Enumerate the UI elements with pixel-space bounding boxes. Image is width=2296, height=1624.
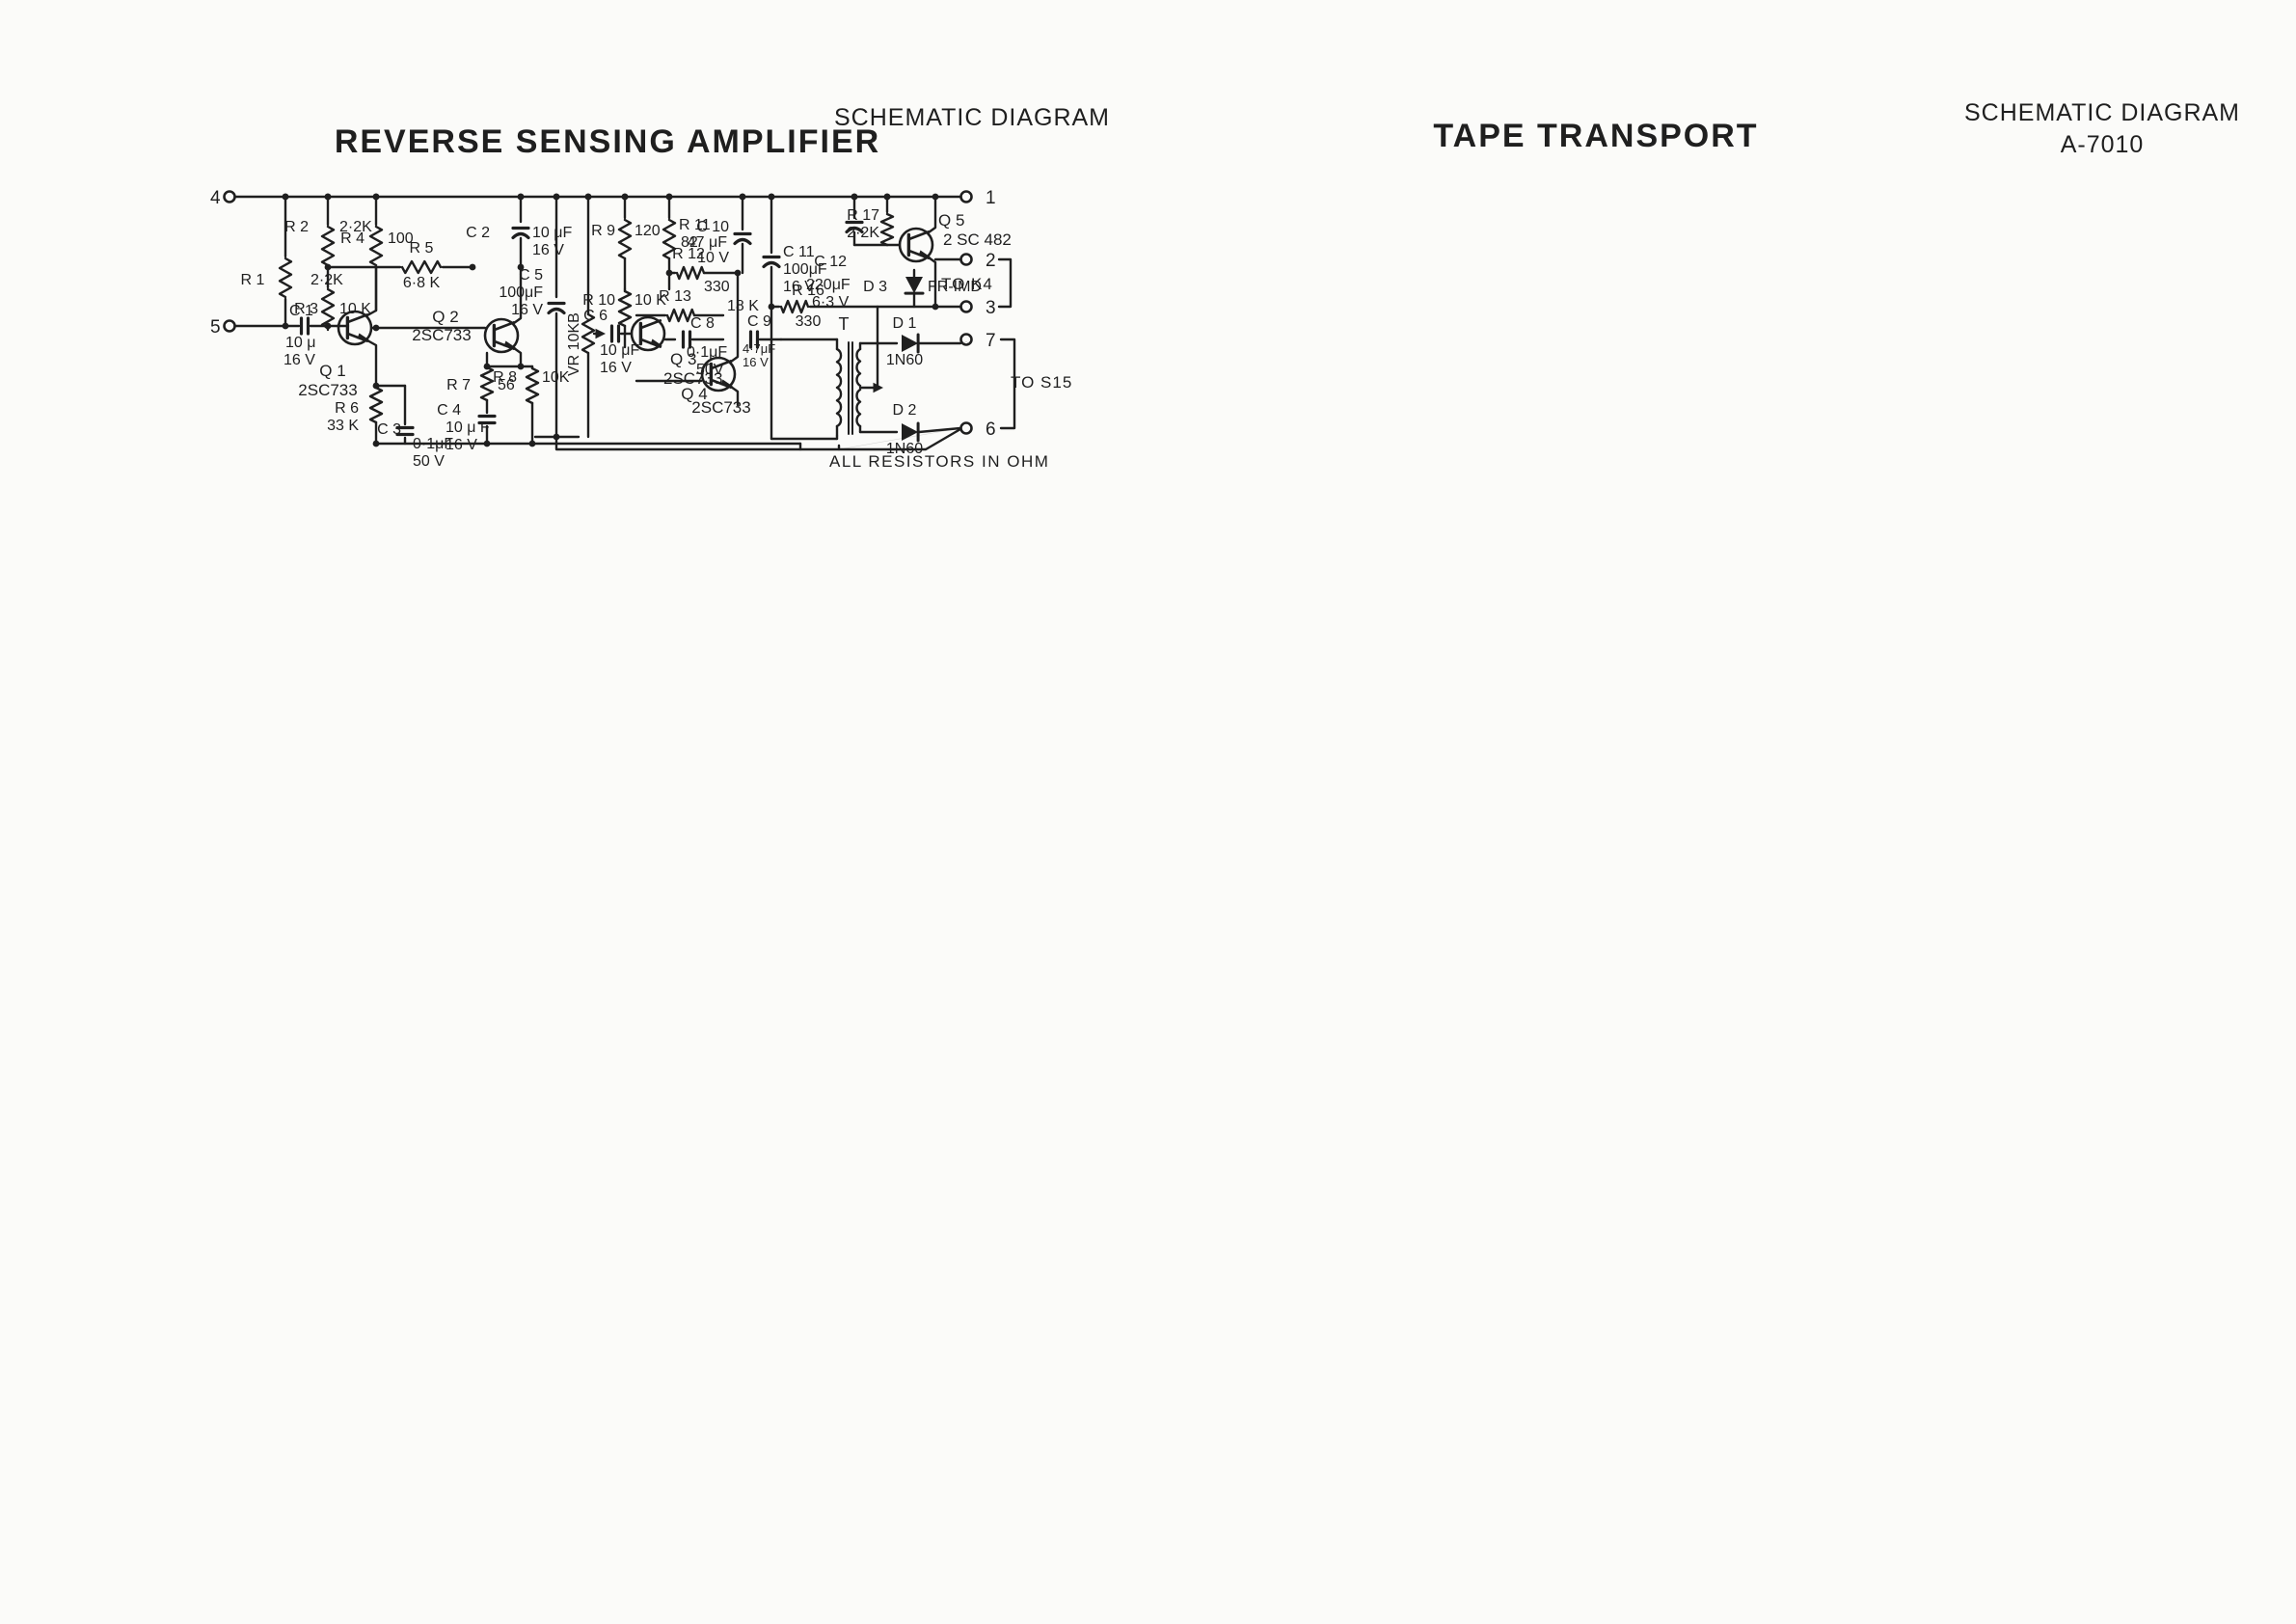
svg-text:D 2: D 2 bbox=[893, 402, 917, 419]
svg-text:16 V: 16 V bbox=[284, 352, 315, 368]
svg-text:100μF: 100μF bbox=[499, 284, 543, 301]
svg-text:R 1: R 1 bbox=[241, 272, 265, 288]
svg-text:4: 4 bbox=[210, 188, 221, 208]
svg-text:R 8: R 8 bbox=[493, 369, 517, 386]
svg-text:220μF: 220μF bbox=[806, 277, 851, 293]
svg-text:R 2: R 2 bbox=[284, 219, 309, 235]
svg-text:16 V: 16 V bbox=[532, 242, 564, 258]
svg-text:R 9: R 9 bbox=[591, 223, 615, 239]
svg-text:3: 3 bbox=[986, 298, 996, 318]
svg-text:18 K: 18 K bbox=[727, 298, 759, 314]
svg-text:Q 5: Q 5 bbox=[938, 211, 964, 230]
svg-text:1N60: 1N60 bbox=[886, 441, 923, 457]
svg-text:10 μ: 10 μ bbox=[285, 335, 315, 351]
svg-text:C 11: C 11 bbox=[783, 244, 815, 260]
svg-text:1N60: 1N60 bbox=[886, 352, 923, 368]
svg-text:4·7μF: 4·7μF bbox=[743, 341, 775, 356]
svg-text:2·2K: 2·2K bbox=[311, 272, 343, 288]
svg-text:TAPE TRANSPORT: TAPE TRANSPORT bbox=[1433, 118, 1758, 154]
svg-text:Q 1: Q 1 bbox=[319, 362, 345, 380]
svg-text:7: 7 bbox=[986, 331, 996, 351]
svg-text:50V: 50V bbox=[696, 362, 724, 378]
svg-text:T: T bbox=[839, 314, 850, 334]
svg-text:VR 10KB: VR 10KB bbox=[566, 312, 582, 376]
svg-text:16 V: 16 V bbox=[511, 302, 543, 318]
svg-text:2 SC 482: 2 SC 482 bbox=[943, 230, 1012, 249]
svg-text:R 3: R 3 bbox=[294, 301, 318, 317]
svg-text:Q 2: Q 2 bbox=[432, 308, 458, 326]
svg-text:5: 5 bbox=[210, 317, 221, 338]
svg-text:R 6: R 6 bbox=[335, 400, 359, 417]
svg-text:R 5: R 5 bbox=[410, 240, 434, 257]
svg-text:330: 330 bbox=[796, 313, 822, 330]
svg-text:D 3: D 3 bbox=[863, 279, 887, 295]
svg-text:10 μF: 10 μF bbox=[532, 225, 572, 241]
svg-text:R 4: R 4 bbox=[340, 230, 365, 247]
svg-text:SCHEMATIC DIAGRAM: SCHEMATIC DIAGRAM bbox=[834, 104, 1110, 131]
svg-text:SCHEMATIC DIAGRAM: SCHEMATIC DIAGRAM bbox=[1964, 99, 2240, 126]
svg-text:2SC733: 2SC733 bbox=[691, 398, 750, 417]
svg-text:2SC733: 2SC733 bbox=[412, 326, 471, 344]
svg-text:16 V: 16 V bbox=[743, 355, 769, 369]
svg-text:50 V: 50 V bbox=[413, 453, 445, 470]
svg-text:C 2: C 2 bbox=[466, 225, 490, 241]
svg-text:47 μF: 47 μF bbox=[688, 234, 727, 251]
svg-text:1: 1 bbox=[986, 188, 996, 208]
svg-text:FR-IMD: FR-IMD bbox=[928, 279, 982, 295]
svg-text:2SC733: 2SC733 bbox=[298, 381, 357, 399]
svg-text:C 9: C 9 bbox=[747, 313, 771, 330]
svg-text:C 12: C 12 bbox=[814, 254, 847, 270]
svg-text:6·3 V: 6·3 V bbox=[812, 294, 850, 311]
svg-text:C 5: C 5 bbox=[519, 267, 543, 284]
svg-text:C 10: C 10 bbox=[696, 219, 729, 235]
svg-text:6: 6 bbox=[986, 420, 996, 440]
svg-text:ALL RESISTORS IN OHM: ALL RESISTORS IN OHM bbox=[829, 452, 1049, 471]
svg-text:C 3: C 3 bbox=[377, 421, 401, 438]
svg-text:10 μF: 10 μF bbox=[600, 342, 639, 359]
svg-text:16 V: 16 V bbox=[446, 437, 477, 453]
svg-text:C 8: C 8 bbox=[690, 315, 715, 332]
svg-text:TO S15: TO S15 bbox=[1011, 373, 1072, 392]
svg-text:R 7: R 7 bbox=[446, 377, 471, 393]
svg-text:R 10: R 10 bbox=[582, 292, 615, 309]
svg-text:REVERSE SENSING AMPLIFIER: REVERSE SENSING AMPLIFIER bbox=[335, 123, 880, 160]
svg-text:6·8 K: 6·8 K bbox=[403, 275, 441, 291]
svg-text:16 V: 16 V bbox=[600, 360, 632, 376]
svg-text:330: 330 bbox=[704, 279, 730, 295]
svg-text:10 V: 10 V bbox=[697, 250, 729, 266]
svg-text:A-7010: A-7010 bbox=[2061, 131, 2145, 158]
svg-text:10 K: 10 K bbox=[339, 301, 371, 317]
svg-text:33 K: 33 K bbox=[327, 418, 359, 434]
svg-text:10 μ F: 10 μ F bbox=[446, 420, 490, 436]
svg-text:R 13: R 13 bbox=[659, 288, 691, 305]
svg-text:D 1: D 1 bbox=[893, 315, 917, 332]
svg-text:120: 120 bbox=[635, 223, 661, 239]
svg-text:2: 2 bbox=[986, 251, 996, 271]
svg-text:C 6: C 6 bbox=[583, 308, 608, 324]
svg-text:R 17: R 17 bbox=[847, 207, 879, 224]
svg-text:2·2K: 2·2K bbox=[847, 225, 879, 241]
svg-text:C 4: C 4 bbox=[437, 402, 461, 419]
svg-text:0·1μF: 0·1μF bbox=[687, 344, 727, 361]
